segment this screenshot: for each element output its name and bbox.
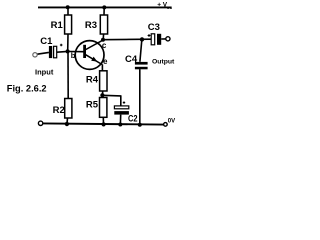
- svg-text:cc: cc: [167, 6, 173, 11]
- svg-text:C4: C4: [125, 54, 138, 65]
- svg-text:Output: Output: [152, 58, 175, 65]
- svg-text:C1: C1: [40, 36, 53, 47]
- svg-text:0V: 0V: [168, 119, 175, 125]
- svg-text:R2: R2: [53, 105, 65, 116]
- svg-text:Input: Input: [35, 68, 54, 77]
- svg-text:R3: R3: [85, 20, 97, 31]
- svg-text:C3: C3: [148, 22, 160, 33]
- svg-text:C2: C2: [128, 114, 138, 125]
- svg-text:e: e: [103, 57, 108, 66]
- svg-text:c: c: [102, 41, 107, 50]
- svg-text:R5: R5: [86, 100, 99, 111]
- svg-text:Fig. 2.6.2: Fig. 2.6.2: [7, 84, 47, 94]
- svg-text:R1: R1: [51, 20, 64, 31]
- svg-text:R4: R4: [86, 75, 99, 86]
- svg-text:b: b: [71, 51, 76, 60]
